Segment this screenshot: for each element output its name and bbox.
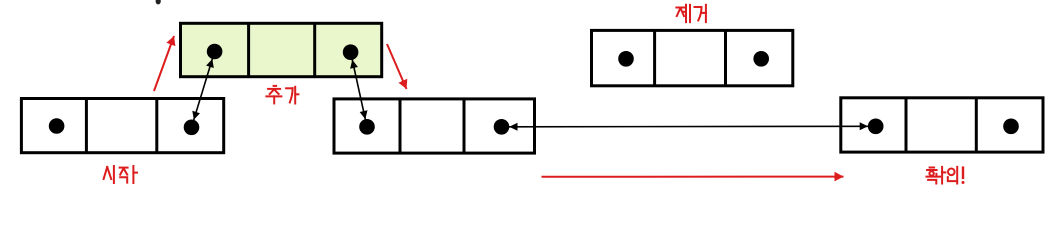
start node data dot bbox=[49, 118, 65, 134]
removed node box bbox=[592, 30, 793, 86]
green node data dot bbox=[207, 44, 223, 60]
red arrow down from green box bbox=[387, 44, 407, 89]
link arrow start<->green bbox=[192, 52, 215, 128]
stray mark at top edge bbox=[156, 0, 161, 4]
added node box (green) bbox=[181, 23, 382, 77]
red traversal arrow bbox=[542, 172, 844, 182]
label 추가 (add) bbox=[266, 86, 298, 104]
removed node data dot bbox=[618, 51, 634, 67]
start node next-pointer dot bbox=[184, 120, 200, 136]
label 시작 (start) bbox=[104, 166, 137, 183]
green node next-pointer dot bbox=[343, 44, 359, 60]
checked node box bbox=[841, 97, 1043, 152]
middle node box bbox=[334, 98, 535, 153]
checked node next-pointer dot bbox=[1003, 119, 1019, 135]
removed node next-pointer dot bbox=[753, 51, 769, 67]
label 제거 (remove) bbox=[676, 5, 706, 22]
label 확인! (check!) bbox=[926, 167, 964, 184]
middle node next-pointer dot bbox=[494, 119, 510, 135]
middle node data dot bbox=[359, 119, 375, 135]
link arrow green<->middle bbox=[350, 52, 367, 127]
checked node data dot bbox=[868, 119, 884, 135]
link arrow middle<->checked bbox=[502, 122, 876, 131]
red arrow up to green box bbox=[154, 36, 175, 91]
start node box bbox=[21, 98, 223, 153]
